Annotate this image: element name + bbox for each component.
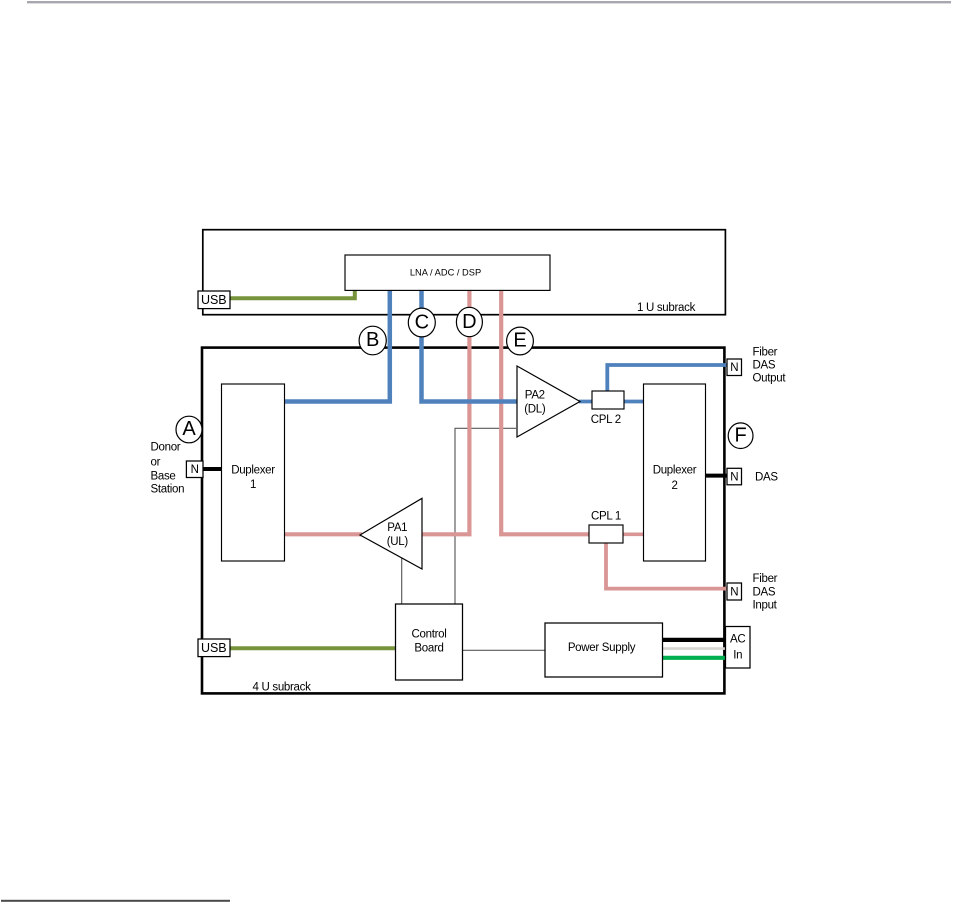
wire: LNA to CPL1 to duplexer2 (red, node E): [501, 291, 589, 535]
wire: control board to PA2 (thin): [455, 428, 516, 604]
wire: power supply to AC in (green): [663, 656, 727, 660]
svg-text:Output: Output: [753, 373, 787, 385]
svg-text:Base: Base: [151, 470, 176, 482]
svg-text:CPL 1: CPL 1: [591, 511, 621, 523]
4 U subrack enclosure: [202, 348, 724, 694]
svg-text:N: N: [730, 472, 738, 484]
svg-text:PA2: PA2: [525, 390, 545, 402]
svg-text:or: or: [151, 457, 161, 469]
svg-text:Power Supply: Power Supply: [568, 642, 636, 654]
label: fiber DAS input: [753, 573, 778, 612]
svg-text:Control: Control: [412, 629, 447, 641]
svg-text:B: B: [366, 329, 379, 351]
svg-text:AC: AC: [730, 633, 745, 645]
N connector (DAS): [727, 468, 742, 485]
svg-text:(DL): (DL): [524, 404, 546, 416]
AC in port: [726, 627, 751, 669]
svg-text:In: In: [733, 649, 742, 661]
node C: [408, 308, 435, 337]
1 U subrack enclosure: [203, 230, 726, 315]
svg-text:F: F: [734, 424, 746, 446]
svg-text:N: N: [730, 362, 738, 374]
page top rule: [27, 1, 951, 3]
wire: LNA to PA1 input (red, node D): [421, 291, 469, 535]
wire: donor N to duplexer1 (black feeder): [203, 467, 222, 471]
svg-text:D: D: [462, 311, 476, 333]
svg-text:LNA / ADC / DSP: LNA / ADC / DSP: [410, 268, 481, 278]
svg-text:DAS: DAS: [755, 472, 778, 484]
svg-text:(UL): (UL): [387, 536, 409, 548]
USB port (4U subrack): [198, 639, 230, 657]
node A: [176, 416, 202, 443]
duplexer 1: [222, 384, 285, 561]
svg-text:Donor: Donor: [151, 442, 181, 454]
coupler CPL 1: [589, 511, 623, 544]
svg-text:CPL 2: CPL 2: [591, 414, 621, 426]
wire: power supply to AC in (black): [663, 638, 727, 642]
svg-text:A: A: [182, 418, 196, 440]
wire: power supply to AC in (grey): [663, 647, 727, 650]
node B: [359, 326, 386, 355]
control board: [396, 604, 463, 680]
power supply: [545, 623, 663, 677]
wire: duplexer1 to PA1 output (red): [284, 532, 362, 536]
svg-text:2: 2: [671, 480, 677, 492]
svg-text:C: C: [415, 311, 429, 333]
wire: control board to PA1 (thin): [401, 558, 403, 604]
wire: USB to LNA (olive): [230, 290, 355, 298]
USB port (1U subrack): [198, 291, 230, 309]
svg-text:Fiber: Fiber: [753, 573, 778, 585]
coupler CPL 2: [591, 391, 624, 426]
N connector (donor): [186, 461, 203, 478]
N connector (fiber DAS input): [727, 583, 742, 600]
wire: CPL1 to duplexer2 (red): [623, 532, 644, 536]
svg-text:DAS: DAS: [753, 359, 776, 371]
N connector (fiber DAS output): [727, 359, 742, 376]
svg-text:E: E: [513, 330, 526, 352]
svg-text:DAS: DAS: [753, 586, 776, 598]
duplexer 2: [644, 384, 706, 561]
svg-text:1 U subrack: 1 U subrack: [637, 302, 696, 314]
amplifier PA1 (UL): [360, 498, 422, 569]
svg-text:Station: Station: [151, 484, 185, 496]
node F: [728, 423, 753, 449]
svg-text:Fiber: Fiber: [753, 347, 778, 359]
svg-text:Duplexer: Duplexer: [231, 465, 275, 477]
svg-text:Board: Board: [414, 643, 443, 655]
svg-text:Input: Input: [753, 600, 778, 612]
wire: USB to control board (olive): [230, 646, 397, 650]
wire: LNA to PA2 input (blue, node C): [422, 291, 518, 402]
wire: CPL2 to fiber DAS output (blue): [607, 365, 727, 392]
svg-text:USB: USB: [201, 641, 227, 655]
wire: PA2 output through CPL2 to duplexer2 (blue): [579, 400, 644, 404]
svg-text:N: N: [191, 464, 199, 476]
label: donor or base station: [151, 442, 185, 496]
label: fiber DAS output: [753, 347, 787, 385]
svg-text:Duplexer: Duplexer: [653, 465, 697, 477]
svg-text:4 U subrack: 4 U subrack: [253, 682, 312, 694]
node E: [507, 327, 534, 355]
amplifier PA2 (DL): [517, 366, 580, 437]
node D: [456, 307, 482, 336]
svg-text:N: N: [730, 587, 738, 599]
wire: duplexer2 to DAS N (black feeder): [706, 474, 728, 478]
wire: CPL1 to fiber DAS input (red): [606, 542, 727, 589]
svg-text:USB: USB: [201, 293, 227, 307]
wire: control board to power supply (thin): [462, 649, 545, 651]
svg-text:PA1: PA1: [387, 522, 407, 534]
LNA / ADC / DSP block: [345, 255, 550, 290]
wire: LNA to duplexer1 (blue, node B): [284, 291, 390, 402]
footnote rule: [1, 900, 230, 902]
svg-text:1: 1: [250, 479, 256, 491]
